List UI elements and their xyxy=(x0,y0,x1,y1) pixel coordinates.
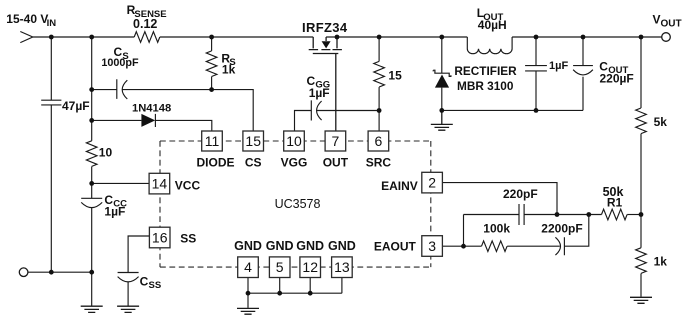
rectifier schottky bar xyxy=(433,70,451,76)
svg-text:1k: 1k xyxy=(654,255,668,269)
svg-text:0.12: 0.12 xyxy=(133,17,157,31)
svg-text:14: 14 xyxy=(152,175,168,191)
svg-text:15: 15 xyxy=(388,69,402,83)
svg-text:11: 11 xyxy=(205,133,220,149)
capacitor COUT upper lead xyxy=(582,37,584,65)
capacitor CGG xyxy=(311,100,321,120)
GND pin stubs xyxy=(248,278,342,294)
wire bottom terminal xyxy=(28,271,92,273)
resistor RSENSE xyxy=(134,32,160,43)
rectifier triangle xyxy=(435,75,449,88)
svg-text:10: 10 xyxy=(286,133,302,149)
svg-text:C: C xyxy=(140,275,149,289)
svg-text:UC3578: UC3578 xyxy=(275,197,321,211)
svg-text:4: 4 xyxy=(244,259,252,275)
rectifier MBR3100 lead xyxy=(441,37,443,73)
terminal input circle xyxy=(19,268,28,277)
svg-text:220pF: 220pF xyxy=(503,187,538,201)
capacitor 1uF output xyxy=(525,66,547,71)
pin boxes xyxy=(149,131,442,278)
wire diode net right xyxy=(155,120,211,131)
UC3578 dashed IC boundary xyxy=(160,141,431,267)
svg-text:1000pF: 1000pF xyxy=(101,57,139,69)
capacitor CCC xyxy=(81,198,102,207)
ground below CCC rail xyxy=(81,306,103,312)
wire top rail output xyxy=(512,36,662,38)
wire GND bus xyxy=(248,292,342,294)
resistor 15 upper lead xyxy=(378,37,380,61)
svg-text:R1: R1 xyxy=(607,196,623,210)
diode 1N4148 triangle xyxy=(141,114,155,127)
ground below rectifier xyxy=(431,110,453,130)
resistor 10 xyxy=(86,141,97,167)
wire feedback row left xyxy=(464,214,520,216)
resistor 15 xyxy=(374,61,385,87)
resistor 5k xyxy=(636,108,647,134)
wire CS net right xyxy=(122,90,253,131)
rectifier lower lead xyxy=(441,88,443,111)
svg-text:1k: 1k xyxy=(222,63,236,77)
svg-text:1µF: 1µF xyxy=(104,205,125,219)
wire 100k to 2200pF xyxy=(507,245,560,247)
resistor RS xyxy=(206,51,217,77)
wire feedback row right xyxy=(524,214,601,216)
diode 1N4148 xyxy=(154,114,156,127)
svg-text:EAOUT: EAOUT xyxy=(374,239,417,253)
svg-text:100k: 100k xyxy=(483,221,510,235)
wire below resistor 10 xyxy=(91,167,93,199)
terminal VOUT circle xyxy=(662,33,671,42)
svg-text:2200pF: 2200pF xyxy=(541,221,582,235)
capacitor 220pF xyxy=(519,204,524,225)
wire below CCC xyxy=(91,208,93,306)
svg-text:7: 7 xyxy=(332,133,340,149)
svg-text:12: 12 xyxy=(302,259,318,275)
wire divider middle xyxy=(640,134,642,248)
ground below CSS xyxy=(117,306,139,312)
svg-text:16: 16 xyxy=(152,229,168,245)
wire CSS to ground xyxy=(127,282,129,306)
svg-text:40µH: 40µH xyxy=(478,18,507,32)
capacitor CSS xyxy=(118,273,139,282)
svg-text:47µF: 47µF xyxy=(62,99,90,113)
svg-text:IRFZ34: IRFZ34 xyxy=(302,20,348,35)
input chevron terminal xyxy=(20,32,33,43)
inductor LOUT xyxy=(467,37,512,54)
svg-text:IN: IN xyxy=(47,18,57,29)
svg-text:VGG: VGG xyxy=(281,155,308,169)
pin names xyxy=(196,155,391,253)
svg-text:10: 10 xyxy=(99,146,113,160)
wire VCC pin xyxy=(92,182,149,184)
svg-text:OUT: OUT xyxy=(661,18,682,29)
svg-text:GND: GND xyxy=(234,239,262,253)
ground below GND pins xyxy=(237,308,259,314)
wire R1 to divider xyxy=(627,214,641,216)
wire CGG to SRC node xyxy=(317,110,380,112)
wire EAINV to feedback node xyxy=(442,183,557,215)
capacitor 1uF lower lead xyxy=(535,71,537,110)
svg-text:5k: 5k xyxy=(654,115,668,129)
svg-text:13: 13 xyxy=(334,259,350,275)
wire top rail mid xyxy=(160,36,313,38)
wire top rail left xyxy=(33,36,134,38)
wire VCC rail upper xyxy=(91,37,93,141)
mosfet IRFZ34 xyxy=(309,37,342,131)
svg-text:GND: GND xyxy=(296,239,324,253)
wire GND bus to ground xyxy=(247,293,249,308)
capacitor COUT xyxy=(573,66,593,75)
resistor 1k xyxy=(636,248,647,274)
svg-text:RECTIFIER: RECTIFIER xyxy=(454,64,517,78)
capacitor 47uF xyxy=(41,100,61,105)
svg-text:3: 3 xyxy=(428,238,436,254)
svg-text:1µF: 1µF xyxy=(309,86,330,100)
svg-text:SS: SS xyxy=(180,232,196,246)
ground below 1k xyxy=(630,297,652,303)
wire VGG riser xyxy=(295,111,312,132)
resistor RS upper lead xyxy=(211,37,213,51)
wire output divider upper xyxy=(640,37,642,108)
resistor 100k xyxy=(482,241,508,252)
svg-text:EAINV: EAINV xyxy=(381,179,418,193)
svg-text:SRC: SRC xyxy=(366,155,392,169)
wire SS pin xyxy=(128,236,149,272)
wire CS net left xyxy=(92,89,117,91)
capacitor 2200pF xyxy=(555,237,564,255)
svg-text:1N4148: 1N4148 xyxy=(132,102,171,114)
resistor R1 50k xyxy=(602,209,628,220)
wire 1k to ground xyxy=(640,274,642,297)
wire 47uF branch upper xyxy=(50,37,52,100)
wire SRC riser xyxy=(378,87,380,131)
wire EAOUT lead xyxy=(442,245,481,247)
svg-text:OUT: OUT xyxy=(323,155,349,169)
svg-text:1µF: 1µF xyxy=(549,60,568,72)
wire RS lower lead xyxy=(211,77,213,90)
pin numbers xyxy=(152,133,437,275)
svg-text:5: 5 xyxy=(276,259,284,275)
svg-text:SS: SS xyxy=(149,280,162,291)
svg-text:15-40 V: 15-40 V xyxy=(6,12,48,26)
svg-text:15: 15 xyxy=(245,133,261,149)
capacitor CS 1000pF xyxy=(117,79,128,99)
wire 220pF branch to EAOUT xyxy=(463,215,465,247)
svg-text:CS: CS xyxy=(245,155,262,169)
mosfet arrow xyxy=(322,41,331,48)
svg-text:GND: GND xyxy=(266,239,294,253)
wire 2200pF to feedback node xyxy=(564,215,588,247)
svg-text:V: V xyxy=(653,13,661,27)
svg-text:MBR 3100: MBR 3100 xyxy=(457,79,514,93)
svg-text:GND: GND xyxy=(328,239,356,253)
svg-text:2: 2 xyxy=(428,174,436,190)
svg-text:6: 6 xyxy=(375,133,383,149)
wire top rail right of mosfet xyxy=(326,36,467,38)
svg-text:220µF: 220µF xyxy=(600,72,634,86)
wire 47uF branch lower xyxy=(50,105,52,272)
svg-text:DIODE: DIODE xyxy=(196,156,234,170)
wire output ground return xyxy=(442,109,583,111)
wire COUT to ground return xyxy=(582,77,584,111)
capacitor 1uF output upper lead xyxy=(535,37,537,65)
svg-text:VCC: VCC xyxy=(175,178,201,192)
wire diode net left xyxy=(92,119,142,121)
